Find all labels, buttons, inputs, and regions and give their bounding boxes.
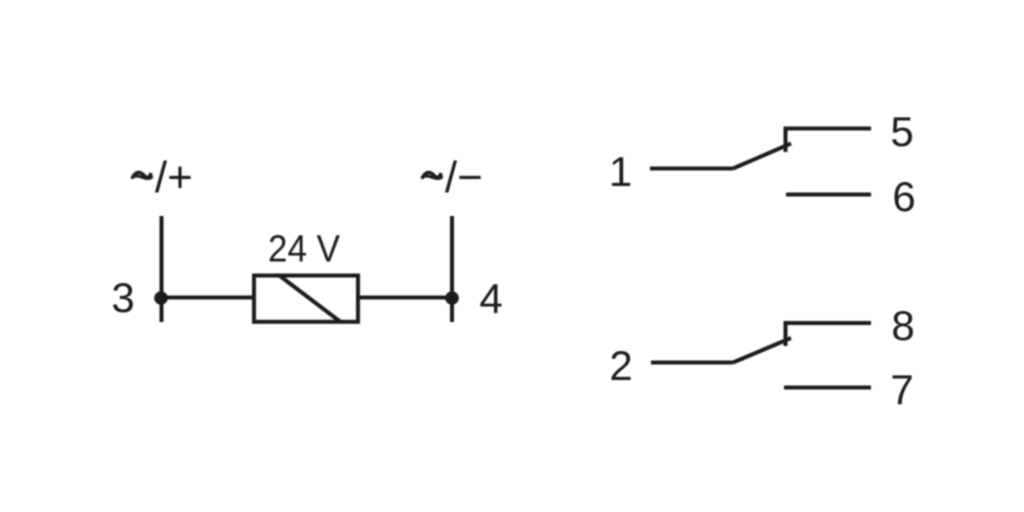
svg-text:1: 1 (609, 148, 632, 195)
svg-text:24 V: 24 V (268, 229, 341, 271)
contact 5 fixed tick (786, 129, 872, 153)
wire node3 to coil (161, 296, 254, 300)
wire contact 6 (786, 193, 871, 197)
node 4 junction dot (445, 291, 459, 305)
coil K1 rectangle (254, 276, 358, 322)
contact 8 fixed tick (786, 323, 872, 346)
svg-text:~/−: ~/− (419, 153, 483, 202)
wire terminal 4 vertical (450, 216, 454, 322)
wire terminal 3 vertical (160, 216, 164, 322)
wire coil to node4 (358, 296, 452, 300)
svg-text:5: 5 (890, 108, 913, 155)
wire common 1 (650, 167, 733, 171)
svg-text:6: 6 (892, 173, 915, 220)
svg-text:7: 7 (890, 366, 913, 413)
svg-text:3: 3 (111, 274, 134, 321)
switch S2 moving arm (733, 338, 791, 363)
coil K1 diagonal (280, 276, 340, 322)
svg-text:~/+: ~/+ (129, 153, 193, 202)
wire common 2 (651, 361, 733, 365)
wire contact 7 (784, 386, 871, 390)
node 3 junction dot (154, 291, 168, 305)
switch S1 moving arm (733, 144, 791, 169)
svg-text:4: 4 (479, 275, 502, 322)
svg-text:8: 8 (891, 302, 914, 349)
svg-text:2: 2 (609, 342, 632, 389)
